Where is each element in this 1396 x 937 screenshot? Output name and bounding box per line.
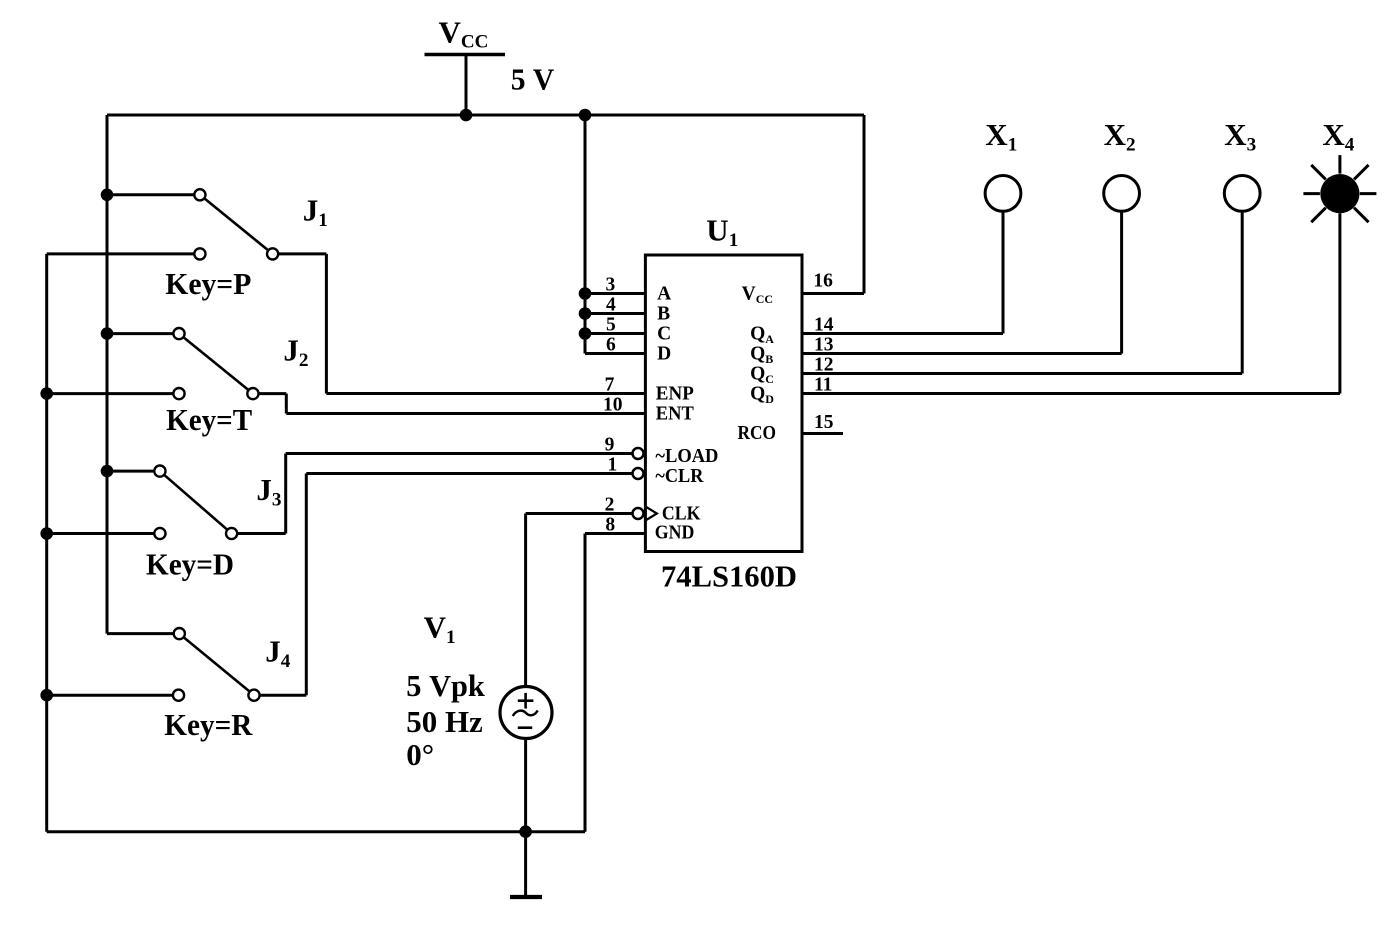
svg-text:2: 2 <box>605 495 615 516</box>
wire X1 riser <box>1002 211 1005 333</box>
wire X2 riser <box>1120 211 1123 353</box>
node junction pin3 <box>579 287 592 300</box>
wire pin 15 (RCO) stub <box>802 432 843 435</box>
wire left rail <box>45 254 48 832</box>
wire GND riser <box>584 534 587 832</box>
lamp X2 <box>1104 176 1140 212</box>
wire top rail <box>107 114 864 117</box>
svg-text:50 Hz: 50 Hz <box>406 704 483 739</box>
wire pin 5 (C) <box>585 332 645 335</box>
wire pin 12 (QC) <box>802 372 1242 375</box>
svg-text:B: B <box>657 304 670 325</box>
node junction feeder / top rail <box>579 109 592 122</box>
switch J4 <box>107 632 174 635</box>
wire pin 14 (QA) <box>802 332 1003 335</box>
lamp X1 <box>985 176 1021 212</box>
node junction left rail J2 <box>40 387 53 400</box>
svg-text:6: 6 <box>606 335 616 356</box>
svg-text:CLK: CLK <box>662 504 701 525</box>
switch J1 <box>107 193 194 196</box>
svg-text:5 V: 5 V <box>511 61 555 96</box>
svg-text:ENT: ENT <box>656 404 694 425</box>
switch J3 <box>107 470 154 473</box>
svg-text:15: 15 <box>814 412 834 433</box>
wire pin 6 (D) <box>585 352 645 355</box>
wire pin 1 (~CLR) <box>306 472 632 475</box>
wire J3 to LOAD riser <box>284 454 287 534</box>
wire pin 3 (A) <box>585 292 645 295</box>
lamp X3 <box>1224 176 1260 212</box>
svg-text:5 Vpk: 5 Vpk <box>406 668 485 703</box>
power VCC symbol <box>425 53 506 56</box>
wire pin 2 (CLK) <box>526 512 633 515</box>
svg-text:5: 5 <box>606 315 616 336</box>
wire mid rail <box>106 115 109 634</box>
wire pin 7 (ENP) <box>326 392 645 395</box>
svg-text:3: 3 <box>606 275 616 296</box>
svg-text:~CLR: ~CLR <box>655 466 704 487</box>
wire V1 to CLK riser <box>524 514 527 687</box>
svg-text:ENP: ENP <box>656 384 694 405</box>
node junction rail J2 <box>101 327 114 340</box>
wire pin 10 (ENT) <box>286 412 645 415</box>
node junction pin4 <box>579 307 592 320</box>
node junction rail J3 <box>101 465 114 478</box>
wire X4 riser <box>1338 213 1341 393</box>
node junction pin5 <box>579 327 592 340</box>
AC source V1 <box>500 687 552 739</box>
wire bottom rail <box>47 830 585 833</box>
svg-text:16: 16 <box>813 271 833 292</box>
svg-text:C: C <box>657 324 671 345</box>
svg-text:1: 1 <box>608 455 618 476</box>
wire J2 to ENT riser <box>285 394 288 414</box>
wire X3 riser <box>1241 211 1244 373</box>
wire pin 13 (QB) <box>802 352 1122 355</box>
node junction left rail J3 <box>40 527 53 540</box>
svg-text:74LS160D: 74LS160D <box>661 560 797 594</box>
wire pin 8 (GND) <box>585 532 645 535</box>
IC U1 74LS160D box <box>645 255 802 552</box>
node junction VCC stub / top rail <box>460 109 473 122</box>
wire feeder vertical <box>584 115 587 354</box>
wire J1 to ENP riser <box>325 254 328 394</box>
svg-text:Key=T: Key=T <box>166 402 252 437</box>
svg-text:Key=D: Key=D <box>146 547 234 582</box>
wire V1 bottom <box>524 738 527 831</box>
switch J2 <box>107 332 173 335</box>
svg-text:RCO: RCO <box>738 423 777 444</box>
pin 1 bubble <box>633 468 644 479</box>
pin 2 bubble <box>633 508 644 519</box>
svg-text:0°: 0° <box>406 737 434 772</box>
wire pin 4 (B) <box>585 312 645 315</box>
svg-text:~LOAD: ~LOAD <box>655 446 718 467</box>
node junction rail J1 <box>101 189 114 202</box>
wire pin16 riser <box>863 115 866 294</box>
node junction left rail J4 <box>40 689 53 702</box>
svg-text:Key=R: Key=R <box>164 707 253 742</box>
svg-text:9: 9 <box>605 435 615 456</box>
svg-text:D: D <box>657 344 671 365</box>
svg-text:GND: GND <box>655 523 695 544</box>
pin 9 bubble <box>633 448 644 459</box>
svg-text:10: 10 <box>603 395 623 416</box>
svg-text:7: 7 <box>605 375 615 396</box>
wire J4 to CLR riser <box>305 474 308 696</box>
svg-text:4: 4 <box>606 295 616 316</box>
svg-text:8: 8 <box>605 515 615 536</box>
lamp X4 (lit) <box>1360 192 1377 195</box>
svg-text:A: A <box>657 284 671 305</box>
wire pin 11 (QD) <box>802 392 1340 395</box>
wire pin 9 (~LOAD) <box>286 452 633 455</box>
svg-text:Key=P: Key=P <box>165 266 251 301</box>
wire pin 16 (VCC) <box>802 292 864 295</box>
node junction V1 / bottom rail <box>519 825 532 838</box>
clock triangle pin 2 <box>645 507 657 521</box>
ground <box>524 832 527 896</box>
